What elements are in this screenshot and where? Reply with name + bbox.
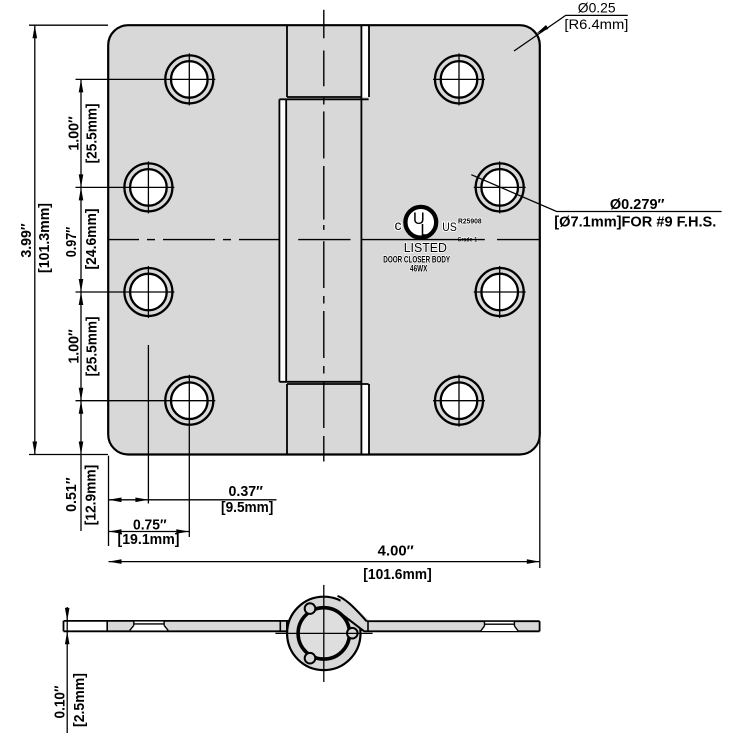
right leaf edge x=368.6 bottom section (368, 384, 370, 455)
left slot border x=286.2 (285, 99, 287, 382)
barrel line x=361.6 full height (360, 25, 362, 454)
edge view left leaf gray section (107, 621, 292, 631)
1.00 top arrow up (79, 79, 84, 92)
hole mid-upper-left crosshair horizontal + extension line (76, 186, 175, 188)
edge view right leaf gray section (368, 621, 540, 631)
edge view left countersink seat (134, 623, 164, 625)
edge view right leaf junction divider (367, 621, 369, 631)
svg-text:c: c (395, 217, 402, 233)
hole mid-lower-right (481, 274, 518, 311)
edge view left countersink slant right (164, 625, 168, 630)
edge view pin hole bump upper-left (305, 603, 316, 614)
svg-text:1.00″: 1.00″ (66, 329, 82, 364)
svg-text:[9.5mm]: [9.5mm] (221, 500, 273, 516)
edge view right leaf bottom edge (364, 630, 540, 632)
0.37 dimension line with shelf (109, 499, 277, 501)
edge view right countersink bore left (484, 621, 486, 626)
edge view left countersink bore right (163, 621, 165, 626)
hole diameter leader line (471, 175, 721, 212)
left slot border x=279.4 (278, 99, 280, 382)
bottom knuckle joint line upper (279, 381, 361, 383)
hole rows dimension line x=81 (80, 79, 82, 531)
1.00 bottom arrow down (79, 388, 84, 401)
edge view pin hole bump right (347, 628, 358, 639)
edge view knuckle horizontal centerline (275, 632, 372, 634)
3.99 dim extension line top (29, 24, 108, 26)
hole mid-lower-right crosshair vertical (499, 266, 501, 318)
edge view left countersink bore left (133, 621, 135, 626)
edge view divider near knuckle 2 (286, 621, 288, 631)
hole top-right crosshair vertical (458, 53, 460, 105)
hinge plate outline (front view) (108, 25, 540, 454)
barrel slot middle left (white gap) (280, 100, 285, 381)
edge view right countersink white (481, 622, 519, 631)
0.10 dimension line (66, 607, 68, 733)
0.51 arrow down (79, 442, 84, 455)
extension line plate right edge below (539, 436, 541, 568)
svg-text:[Ø7.1mm]FOR #9 F.H.S.: [Ø7.1mm]FOR #9 F.H.S. (554, 214, 716, 230)
hole mid-upper-left (130, 169, 167, 206)
0.10 arrow down (outside) (65, 608, 70, 621)
svg-text:[101.6mm]: [101.6mm] (363, 567, 432, 583)
horizontal centerline of plate (108, 239, 540, 241)
0.75 arrow right (176, 529, 189, 534)
0.37 arrow right (135, 498, 148, 503)
edge view left leaf bottom edge (64, 630, 289, 632)
svg-text:0.97″: 0.97″ (64, 227, 80, 258)
hole bottom-right crosshair vertical (458, 375, 460, 427)
edge view left leaf top edge (64, 620, 289, 622)
1.00 top arrow down (79, 174, 84, 187)
edge view right countersink bore right (513, 621, 515, 626)
svg-text:3.99″: 3.99″ (19, 223, 35, 257)
bottom knuckle joint line lower (287, 383, 369, 385)
corner radius leader line (514, 15, 628, 51)
edge view divider at plate edge (106, 621, 108, 631)
top knuckle joint line lower (279, 98, 368, 100)
0.51 arrow up (79, 401, 84, 414)
svg-text:[25.5mm]: [25.5mm] (84, 316, 101, 376)
hole bottom-right (441, 382, 478, 419)
svg-text:R25908: R25908 (458, 219, 482, 226)
knuckle edge line x=287 top section (286, 25, 288, 97)
1.00 bottom arrow up (79, 292, 84, 305)
edge view right countersink slant right (514, 626, 518, 631)
extension line hole col B below (147, 345, 149, 504)
edge view left leaf end line (63, 621, 65, 631)
edge view knuckle inner ring (298, 608, 349, 659)
svg-text:[12.9mm]: [12.9mm] (83, 465, 100, 526)
svg-text:0.10″: 0.10″ (52, 685, 68, 718)
edge view wrap inner diagonal (339, 612, 364, 631)
svg-text:[25.5mm]: [25.5mm] (84, 103, 101, 163)
hole mid-lower-right crosshair horizontal (474, 291, 526, 293)
edge view left countersink slant left (130, 625, 134, 630)
svg-text:Ø0.25: Ø0.25 (578, 0, 616, 16)
hole bottom-left (171, 382, 208, 419)
svg-text:Ø0.279″: Ø0.279″ (610, 197, 665, 213)
hole mid-lower-left (130, 274, 167, 311)
hole mid-lower-left crosshair horizontal + extension line (76, 291, 175, 293)
svg-text:US: US (442, 222, 457, 234)
UL mark ring (405, 207, 436, 238)
svg-text:[24.6mm]: [24.6mm] (83, 208, 100, 269)
hole mid-upper-right crosshair vertical (499, 161, 501, 213)
hole mid-upper-right (481, 169, 518, 206)
hole bottom-left crosshair horizontal + extension line (76, 400, 216, 402)
svg-text:[101.3mm]: [101.3mm] (36, 203, 53, 273)
extension line plate left edge below (108, 456, 110, 546)
0.97 arrow down (79, 279, 84, 292)
svg-text:[R6.4mm]: [R6.4mm] (564, 16, 628, 32)
barrel slot lower right (white gap) (362, 385, 368, 454)
right leaf edge x=368.6 top section (368, 25, 370, 97)
hole mid-upper-right crosshair horizontal (474, 186, 526, 188)
hole top-right crosshair horizontal (433, 78, 485, 80)
top knuckle joint line upper (287, 96, 362, 98)
edge view right leaf wrap fill (339, 595, 368, 631)
edge view right countersink seat (485, 623, 515, 625)
3.99 dimension line (34, 25, 36, 454)
4.00 arrow left (109, 559, 122, 564)
0.75 arrow left (109, 529, 122, 534)
svg-text:L: L (420, 222, 429, 240)
svg-text:[2.5mm]: [2.5mm] (71, 673, 88, 727)
hole top-left (171, 61, 208, 98)
0.10 arrow up (outside) (65, 631, 70, 644)
0.37 arrow left (109, 498, 122, 503)
hole mid-lower-left crosshair vertical (147, 266, 149, 318)
svg-text:46WX: 46WX (410, 264, 428, 275)
edge view pin hole bump lower-left (305, 653, 316, 664)
corner radius leader arrow (536, 25, 548, 34)
0.97 arrow up (79, 187, 84, 200)
edge view left leaf white section (64, 621, 108, 631)
knuckle edge line x=287 bottom section (286, 384, 288, 455)
hole bottom-left crosshair vertical + extension (188, 375, 190, 537)
svg-text:4.00″: 4.00″ (378, 543, 414, 559)
edge view knuckle vertical centerline (323, 585, 325, 682)
hole top-right (441, 61, 478, 98)
svg-text:0.51″: 0.51″ (64, 477, 80, 512)
3.99 dim arrow up (33, 25, 38, 38)
edge view divider near knuckle 1 (279, 621, 281, 631)
edge view right leaf end line (539, 621, 541, 631)
0.75 dimension line (109, 531, 190, 533)
edge view right countersink slant left (481, 626, 485, 631)
hole bottom-right crosshair horizontal (433, 400, 485, 402)
edge view left countersink white (130, 622, 169, 631)
hole top-left crosshair vertical (188, 53, 190, 105)
edge view wrap outer diagonal (338, 596, 367, 621)
svg-text:LISTED: LISTED (404, 240, 447, 255)
svg-text:0.37″: 0.37″ (229, 484, 263, 500)
3.99 dim extension line bottom (29, 454, 108, 456)
3.99 dim arrow down (33, 442, 38, 455)
vertical centerline of barrel (323, 10, 325, 462)
hole top-left crosshair horizontal + extension line (76, 78, 216, 80)
svg-text:1.00″: 1.00″ (66, 116, 82, 151)
hole mid-upper-left crosshair vertical (147, 161, 149, 213)
4.00 dimension line (109, 561, 540, 563)
svg-text:[19.1mm]: [19.1mm] (118, 532, 180, 548)
barrel slot upper right (white gap) (362, 26, 368, 97)
4.00 arrow right (527, 559, 540, 564)
edge view knuckle outer circle (287, 597, 360, 670)
edge view right leaf top edge (367, 620, 540, 622)
